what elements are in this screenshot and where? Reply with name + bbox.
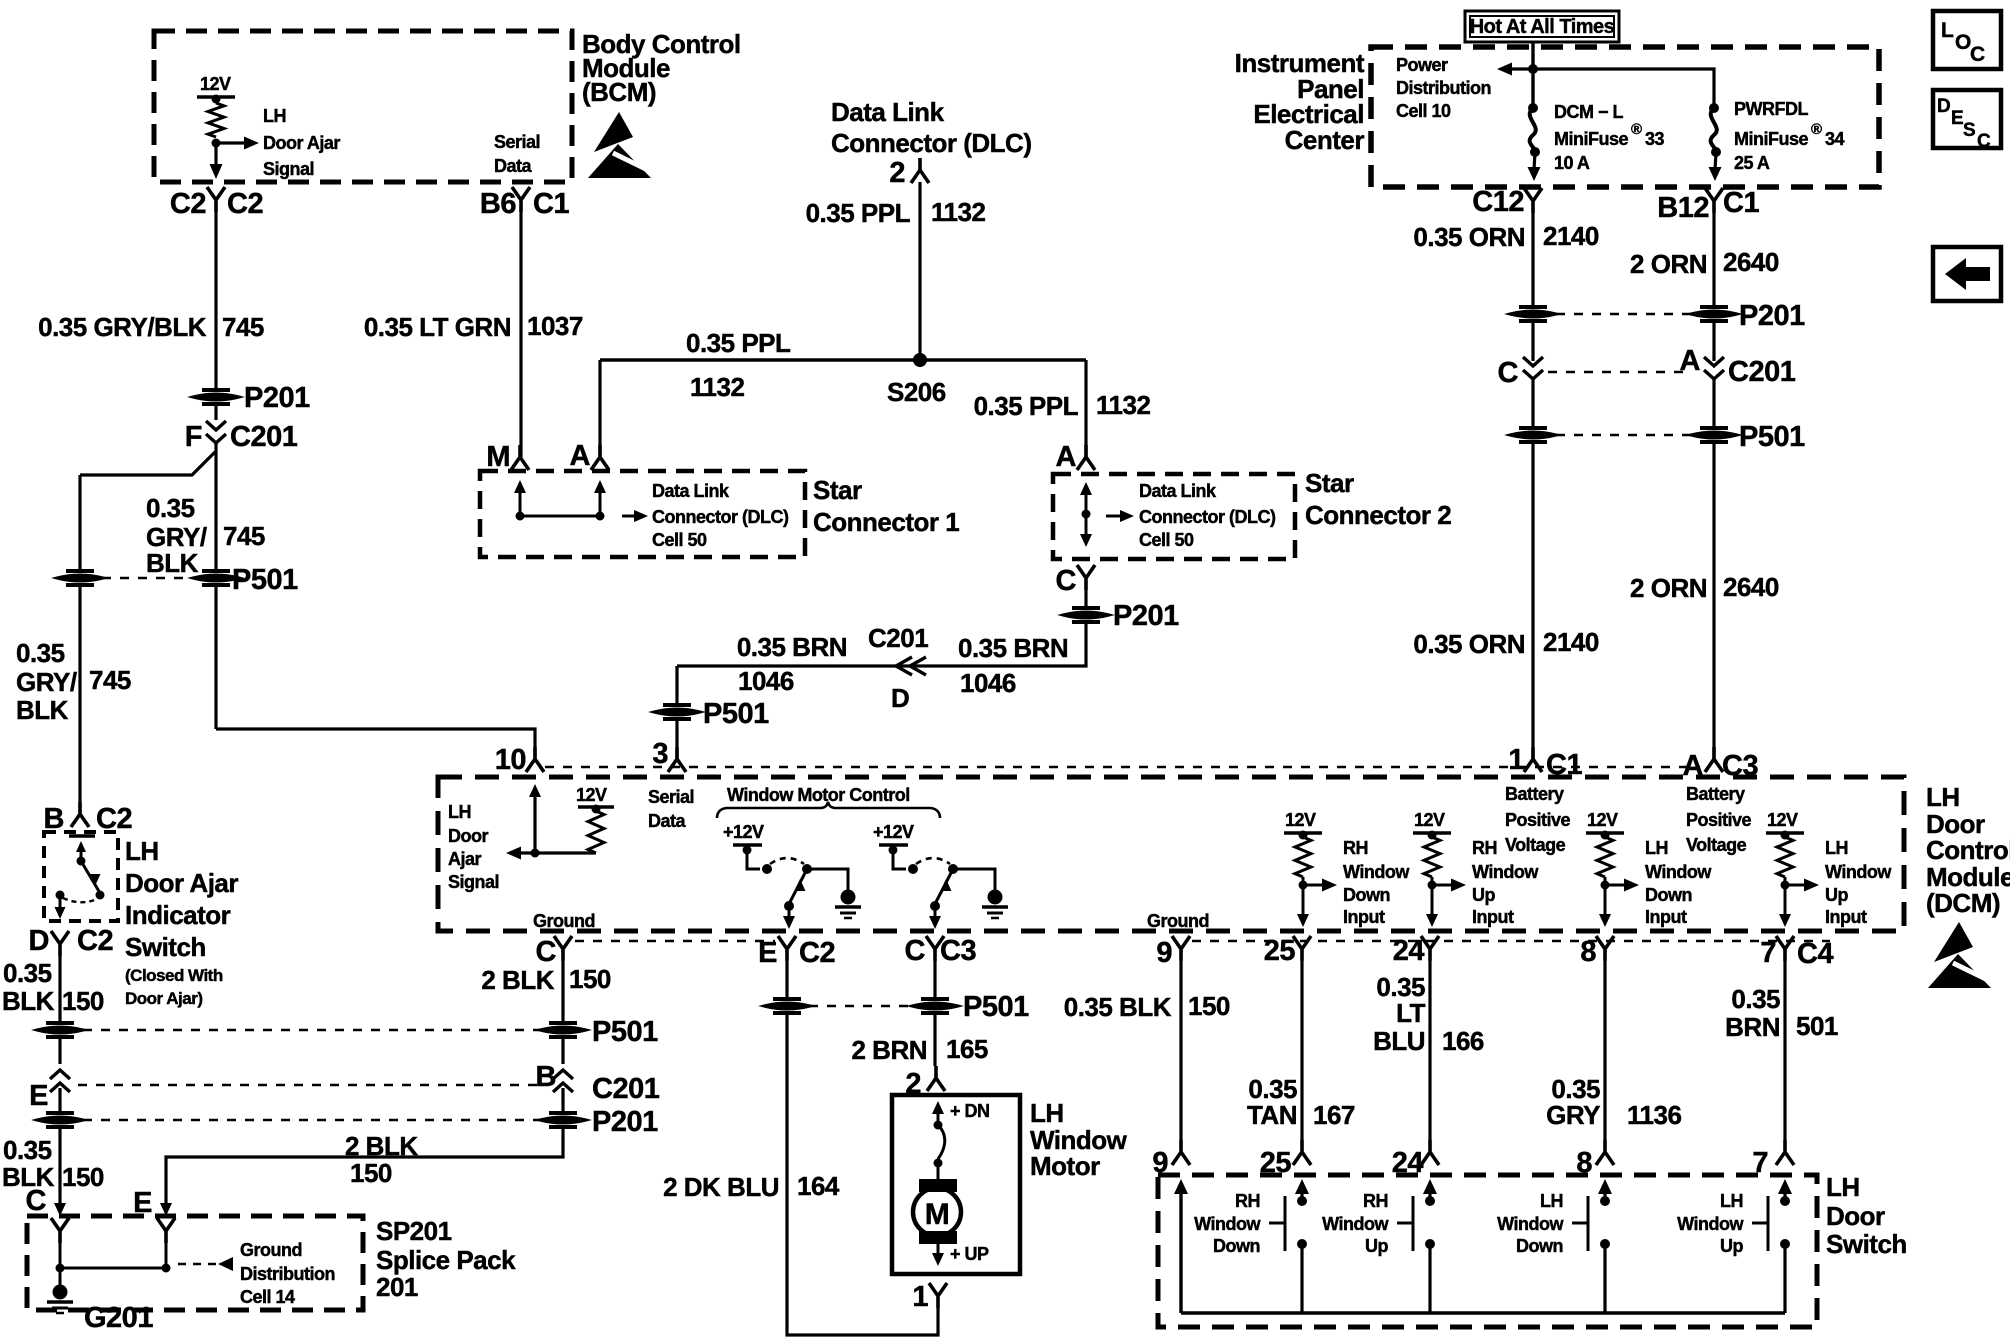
junction dot on feed <box>1528 64 1538 74</box>
svg-text:Down: Down <box>1645 885 1692 905</box>
svg-text:M: M <box>925 1198 950 1231</box>
svg-text:RH: RH <box>1343 838 1368 858</box>
svg-text:Signal: Signal <box>448 872 499 892</box>
Star Connector 2 box <box>1053 474 1295 559</box>
svg-text:0.35: 0.35 <box>3 1135 52 1165</box>
svg-text:Data Link: Data Link <box>652 481 730 501</box>
DESC reference box <box>1933 90 2001 148</box>
svg-text:10: 10 <box>495 744 526 776</box>
window motor switch 2 contact arc <box>916 858 950 864</box>
svg-text:Down: Down <box>1516 1236 1563 1256</box>
svg-text:C: C <box>1056 565 1077 597</box>
svg-text:Up: Up <box>1720 1236 1743 1256</box>
wire 0.35 BRN 501 from DCM pin 7 <box>1783 961 1786 1140</box>
wire 0.35 LT GRN 1037 serial data <box>519 212 522 457</box>
svg-text:3: 3 <box>652 738 668 770</box>
svg-text:150: 150 <box>1188 991 1230 1021</box>
fuse PWRFDL MiniFuse 34 25 A <box>1709 103 1719 113</box>
svg-text:2 ORN: 2 ORN <box>1630 249 1707 279</box>
svg-text:0.35 LT GRN: 0.35 LT GRN <box>364 312 511 342</box>
svg-text:Indicator: Indicator <box>125 900 231 930</box>
svg-text:12V: 12V <box>576 785 607 805</box>
svg-text:2: 2 <box>889 157 905 189</box>
svg-text:2140: 2140 <box>1543 627 1599 657</box>
DCM ESD symbol <box>1928 922 1994 988</box>
diagonal branch of wire 745 to left <box>80 452 215 475</box>
svg-text:Window: Window <box>1472 862 1539 882</box>
svg-text:Window: Window <box>1677 1214 1744 1234</box>
svg-text:Ground: Ground <box>533 911 595 931</box>
svg-text:0.35 ORN: 0.35 ORN <box>1413 222 1525 252</box>
Star Connector 1 box <box>480 471 805 557</box>
svg-text:C: C <box>1970 43 1985 66</box>
wire 2 BRN 165 from DCM pin C/C3 <box>933 961 936 998</box>
svg-text:Splice Pack: Splice Pack <box>376 1245 516 1275</box>
wires between C201 and P501 (right) <box>1531 379 1534 427</box>
horizontal PPL wire <box>600 358 1086 362</box>
connector P501 pair (motor) <box>764 999 810 1013</box>
svg-text:0.35: 0.35 <box>3 958 52 988</box>
wire 0.35 TAN 167 from DCM pin 25 <box>1300 961 1303 1140</box>
svg-text:Star: Star <box>813 475 862 505</box>
svg-text:2 BRN: 2 BRN <box>851 1035 927 1065</box>
svg-text:L: L <box>1941 19 1954 42</box>
svg-text:SP201: SP201 <box>376 1216 452 1246</box>
svg-text:A: A <box>570 440 591 472</box>
svg-text:C1: C1 <box>533 188 569 220</box>
svg-text:C1: C1 <box>1723 187 1759 219</box>
wire down to pin C2 inside BCM <box>214 143 217 164</box>
wire from DCM pin E/C2 to motor <box>785 961 788 998</box>
svg-text:B12: B12 <box>1657 192 1709 224</box>
svg-text:164: 164 <box>797 1171 840 1201</box>
svg-text:Window: Window <box>1645 862 1712 882</box>
svg-text:Window Motor Control: Window Motor Control <box>727 785 910 805</box>
svg-text:LH: LH <box>263 106 286 126</box>
splice pack pin E <box>157 1218 175 1243</box>
svg-text:Cell 50: Cell 50 <box>652 530 707 550</box>
internal wires of Star Connector 2 <box>1080 482 1092 495</box>
window motor switch 2 ground <box>953 869 995 890</box>
svg-text:33: 33 <box>1645 129 1665 149</box>
svg-text:P501: P501 <box>963 991 1029 1023</box>
svg-text:25 A: 25 A <box>1734 153 1770 173</box>
svg-text:LH: LH <box>448 802 471 822</box>
svg-text:MiniFuse: MiniFuse <box>1734 129 1808 149</box>
svg-text:Signal: Signal <box>263 159 314 179</box>
svg-text:2640: 2640 <box>1723 247 1779 277</box>
wire down to Star Connector 2 pin A <box>1084 360 1087 457</box>
svg-text:LH: LH <box>1825 838 1848 858</box>
svg-text:Input: Input <box>1472 907 1514 927</box>
svg-text:Connector (DLC): Connector (DLC) <box>652 507 789 527</box>
svg-text:Motor: Motor <box>1030 1151 1100 1181</box>
wire 2 ORN 2640 upper <box>1712 213 1715 306</box>
BCM ESD symbol <box>588 112 654 178</box>
svg-text:150: 150 <box>350 1158 392 1188</box>
Instrument Panel Electrical Center box <box>1371 47 1879 187</box>
svg-text:C: C <box>26 1185 47 1217</box>
svg-text:C201: C201 <box>592 1073 660 1105</box>
svg-text:2640: 2640 <box>1723 572 1779 602</box>
arrow to Power Distribution <box>1510 67 1533 70</box>
svg-text:Down: Down <box>1213 1236 1260 1256</box>
svg-text:P201: P201 <box>592 1106 658 1138</box>
svg-text:B6: B6 <box>480 188 516 220</box>
svg-text:1132: 1132 <box>1096 390 1150 420</box>
connector P201 on wire 745 <box>193 390 239 404</box>
wire 2 BLK 150 from DCM pin C <box>561 961 564 1022</box>
svg-text:Door Ajar): Door Ajar) <box>125 989 203 1008</box>
svg-text:745: 745 <box>89 665 131 695</box>
svg-text:150: 150 <box>62 1162 104 1192</box>
svg-text:2 BLK: 2 BLK <box>345 1131 418 1161</box>
SP201 Splice Pack 201 box <box>27 1216 363 1310</box>
svg-text:C: C <box>905 935 926 967</box>
svg-text:1046: 1046 <box>960 668 1016 698</box>
svg-text:C201: C201 <box>868 623 928 653</box>
svg-text:0.35 PPL: 0.35 PPL <box>806 198 911 228</box>
svg-text:1: 1 <box>912 1281 928 1313</box>
door ajar switch output <box>59 898 62 908</box>
svg-text:C3: C3 <box>940 935 976 967</box>
svg-text:Input: Input <box>1343 907 1385 927</box>
svg-text:BLK: BLK <box>2 986 55 1016</box>
svg-text:C2: C2 <box>227 188 263 220</box>
svg-text:O: O <box>1955 31 1971 54</box>
svg-text:Star: Star <box>1305 468 1354 498</box>
wire 2 ORN 2640 lower down to DCM pin A <box>1712 443 1715 759</box>
branch wire to fuse 34 <box>1533 69 1714 104</box>
svg-text:Window: Window <box>1322 1214 1389 1234</box>
LH Window Motor box <box>892 1095 1020 1274</box>
svg-text:LT: LT <box>1396 998 1425 1028</box>
svg-text:Connector 2: Connector 2 <box>1305 500 1451 530</box>
svg-text:®: ® <box>1811 121 1822 138</box>
svg-text:12V: 12V <box>1285 810 1316 830</box>
feed wire from Hot At All Times <box>1531 42 1534 104</box>
svg-text:2 ORN: 2 ORN <box>1630 573 1707 603</box>
svg-text:M: M <box>486 441 510 473</box>
svg-text:P201: P201 <box>1113 600 1179 632</box>
door switch common rail <box>1181 1311 1785 1315</box>
door ajar switch arm <box>81 861 100 893</box>
svg-text:9: 9 <box>1156 937 1172 969</box>
svg-text:P501: P501 <box>232 564 298 596</box>
Body Control Module (BCM) box <box>154 31 572 182</box>
motor internal + DN contact <box>932 1101 944 1114</box>
svg-text:P501: P501 <box>1739 421 1805 453</box>
svg-text:1132: 1132 <box>690 372 744 402</box>
svg-text:34: 34 <box>1825 129 1845 149</box>
svg-text:10 A: 10 A <box>1554 153 1590 173</box>
svg-text:Data Link: Data Link <box>1139 481 1217 501</box>
svg-text:D: D <box>1937 96 1950 117</box>
junction node in BCM <box>212 139 221 148</box>
connector P501 pair (bottom left) <box>37 1023 83 1037</box>
svg-text:1132: 1132 <box>931 197 985 227</box>
svg-text:PWRFDL: PWRFDL <box>1734 99 1808 119</box>
svg-text:BLK: BLK <box>16 695 69 725</box>
svg-text:12V: 12V <box>1767 810 1798 830</box>
svg-text:Door Ajar: Door Ajar <box>263 133 340 153</box>
back-arrow reference box <box>1933 247 2001 301</box>
svg-text:Down: Down <box>1343 885 1390 905</box>
svg-text:0.35 ORN: 0.35 ORN <box>1413 629 1525 659</box>
window motor switch 1 output to pin E <box>788 906 791 917</box>
svg-text:P201: P201 <box>244 382 310 414</box>
svg-text:LH: LH <box>1030 1098 1064 1128</box>
svg-text:C: C <box>1977 131 1991 152</box>
svg-text:2140: 2140 <box>1543 221 1599 251</box>
svg-text:LH: LH <box>1540 1191 1563 1211</box>
door ajar switch dashed arc <box>63 898 97 902</box>
svg-text:Door Ajar: Door Ajar <box>125 868 238 898</box>
svg-text:Battery: Battery <box>1505 784 1564 804</box>
svg-text:Input: Input <box>1645 907 1687 927</box>
svg-text:Door: Door <box>448 826 488 846</box>
connector C201 pins E and B (bottom) <box>58 1038 61 1064</box>
svg-text:Ground: Ground <box>240 1240 302 1260</box>
wire 0.35 LT BLU 166 from DCM pin 24 <box>1428 961 1431 1140</box>
svg-text:Switch: Switch <box>1826 1229 1907 1259</box>
svg-text:Data: Data <box>494 156 533 176</box>
motor internal switch curve <box>938 1125 945 1159</box>
svg-text:®: ® <box>1631 121 1642 138</box>
door switch RH Down <box>1295 1179 1309 1194</box>
connector P201 below SC2 <box>1084 590 1087 607</box>
svg-text:RH: RH <box>1235 1191 1260 1211</box>
svg-text:0.35 GRY/BLK: 0.35 GRY/BLK <box>38 312 207 342</box>
svg-text:F: F <box>185 421 202 453</box>
svg-text:0.35 BRN: 0.35 BRN <box>737 632 847 662</box>
dashed link to Ground Distribution <box>178 1263 216 1266</box>
LOC reference box <box>1933 11 2001 69</box>
svg-text:A: A <box>1683 750 1704 782</box>
wire 0.35 BRN 1046 from SC2 <box>677 621 1086 666</box>
svg-text:Control: Control <box>1926 835 2010 865</box>
wire 2 BLK 150 to splice pack pin E <box>166 1128 563 1203</box>
LH Door Switch box <box>1158 1175 1817 1327</box>
svg-text:(Closed With: (Closed With <box>125 966 223 985</box>
arrow to Cell 50 text (SC2) <box>1106 515 1120 518</box>
wire 0.35 GRY 1136 from DCM pin 8 <box>1603 961 1606 1140</box>
window motor switch 2 output to pin C <box>934 906 937 917</box>
window motor switch 1 ground <box>807 869 848 890</box>
svg-text:Cell 50: Cell 50 <box>1139 530 1194 550</box>
DCM bottom connector line C4 (right group) <box>1192 940 1830 943</box>
window motor switch 2 arm <box>936 873 951 902</box>
svg-text:LH: LH <box>125 836 159 866</box>
svg-text:BLK: BLK <box>146 548 199 578</box>
svg-text:0.35 BLK: 0.35 BLK <box>1064 992 1172 1022</box>
wire 0.35 ORN 2140 lower down to DCM pin 1 <box>1531 443 1534 759</box>
wire 0.35 BLK 150 to splice pack pin C <box>58 1128 61 1203</box>
svg-text:C201: C201 <box>1728 356 1796 388</box>
svg-text:Cell 14: Cell 14 <box>240 1287 295 1307</box>
door switch RH Up <box>1423 1179 1437 1194</box>
svg-text:Power: Power <box>1396 55 1448 75</box>
internal wires of Star Connector 1 <box>514 480 526 493</box>
wire 745 right branch down to DCM pin 10 <box>214 585 217 729</box>
svg-text:166: 166 <box>1442 1026 1484 1056</box>
svg-text:C1: C1 <box>1546 749 1582 781</box>
svg-text:+12V: +12V <box>873 822 914 842</box>
motor internal + UP lead <box>937 1244 940 1253</box>
svg-text:BRN: BRN <box>1725 1012 1780 1042</box>
svg-text:Window: Window <box>1497 1214 1564 1234</box>
svg-text:GRY: GRY <box>1546 1100 1600 1130</box>
svg-text:Up: Up <box>1472 885 1495 905</box>
svg-text:(DCM): (DCM) <box>1926 888 2000 918</box>
svg-text:C201: C201 <box>230 421 298 453</box>
fuse DCM-L MiniFuse 33 10 A <box>1528 103 1538 113</box>
svg-text:Door: Door <box>1826 1201 1885 1231</box>
svg-text:LH: LH <box>1720 1191 1743 1211</box>
svg-text:165: 165 <box>946 1034 988 1064</box>
connector P501 pair (right) <box>1510 428 1556 442</box>
svg-text:Window: Window <box>1343 862 1410 882</box>
svg-text:P501: P501 <box>703 698 769 730</box>
svg-text:E: E <box>758 937 777 969</box>
svg-text:Hot At All Times: Hot At All Times <box>1470 16 1615 38</box>
svg-text:Positive: Positive <box>1505 810 1571 830</box>
svg-text:150: 150 <box>569 964 611 994</box>
DCM bottom connector line (left group) <box>575 940 775 943</box>
arrow to LH Door Ajar Signal (BCM) <box>216 141 245 144</box>
svg-text:Data Link: Data Link <box>831 97 945 127</box>
door switch LH Down <box>1598 1179 1612 1194</box>
Hot At All Times box <box>1465 11 1619 42</box>
svg-text:G201: G201 <box>84 1302 153 1334</box>
connector P201 pair (bottom left) <box>58 1088 61 1112</box>
svg-text:E: E <box>29 1080 48 1112</box>
svg-text:Voltage: Voltage <box>1686 835 1747 855</box>
resistor in BCM (door ajar pull-up) <box>215 99 218 103</box>
svg-text:+12V: +12V <box>723 822 764 842</box>
svg-text:GRY/: GRY/ <box>16 667 77 697</box>
motor M symbol <box>919 1179 957 1192</box>
svg-text:Window: Window <box>1825 862 1892 882</box>
svg-text:BLU: BLU <box>1373 1026 1425 1056</box>
svg-text:Serial: Serial <box>494 132 540 152</box>
svg-text:Ajar: Ajar <box>448 849 482 869</box>
svg-text:C4: C4 <box>1797 938 1833 970</box>
svg-text:0.35 PPL: 0.35 PPL <box>686 328 791 358</box>
svg-text:Connector 1: Connector 1 <box>813 507 959 537</box>
svg-text:TAN: TAN <box>1247 1100 1297 1130</box>
svg-text:Positive: Positive <box>1686 810 1752 830</box>
svg-text:0.35: 0.35 <box>146 493 195 523</box>
svg-text:C2: C2 <box>77 925 113 957</box>
svg-text:12V: 12V <box>1587 810 1618 830</box>
svg-text:0.35: 0.35 <box>16 638 65 668</box>
svg-text:Connector (DLC): Connector (DLC) <box>831 128 1031 158</box>
svg-text:S206: S206 <box>887 377 946 407</box>
svg-text:501: 501 <box>1796 1011 1838 1041</box>
connector P501 on BRN wire <box>675 666 678 704</box>
svg-text:Data: Data <box>648 811 687 831</box>
svg-text:LH: LH <box>1926 782 1960 812</box>
wire from door ajar switch pin D <box>58 956 61 1022</box>
wire 0.35 ORN 2140 upper <box>1531 213 1534 306</box>
svg-text:2 DK BLU: 2 DK BLU <box>663 1172 779 1202</box>
svg-text:RH: RH <box>1472 838 1497 858</box>
svg-text:Voltage: Voltage <box>1505 835 1566 855</box>
wire down to Star Connector 1 pin A <box>598 360 601 457</box>
svg-text:1: 1 <box>1508 744 1524 776</box>
door ajar switch contact <box>69 834 95 838</box>
svg-text:12V: 12V <box>1414 810 1445 830</box>
svg-text:Cell 10: Cell 10 <box>1396 101 1451 121</box>
svg-text:+ UP: + UP <box>950 1244 989 1264</box>
wire 0.35 PPL 1132 from DLC <box>918 182 921 360</box>
window motor switch 1 arm <box>790 873 805 902</box>
svg-text:745: 745 <box>223 521 265 551</box>
svg-text:Up: Up <box>1825 885 1848 905</box>
connector P201 pair (right) <box>1510 307 1556 321</box>
svg-text:745: 745 <box>222 312 264 342</box>
svg-text:167: 167 <box>1313 1100 1355 1130</box>
wire to DCM pin 3 <box>675 720 678 759</box>
svg-text:MiniFuse: MiniFuse <box>1554 129 1628 149</box>
svg-text:P201: P201 <box>1739 300 1805 332</box>
svg-text:LH: LH <box>1826 1172 1860 1202</box>
arrow to Cell 50 text (SC1) <box>622 515 636 518</box>
svg-text:Distribution: Distribution <box>1396 78 1491 98</box>
svg-text:Window: Window <box>1194 1214 1261 1234</box>
svg-text:C12: C12 <box>1472 186 1524 218</box>
left wire 745 down to door ajar switch <box>78 475 81 571</box>
ground G201 <box>53 1285 68 1300</box>
svg-text:2 BLK: 2 BLK <box>481 965 554 995</box>
svg-text:C2: C2 <box>170 188 206 220</box>
LH Door Ajar Indicator Switch box <box>44 832 118 921</box>
svg-text:A: A <box>1680 345 1701 377</box>
LH Door Control Module (DCM) box <box>438 777 1904 931</box>
svg-text:1037: 1037 <box>527 311 583 341</box>
svg-text:25: 25 <box>1264 935 1296 967</box>
svg-text:1136: 1136 <box>1627 1100 1681 1130</box>
svg-text:0.35 PPL: 0.35 PPL <box>974 391 1079 421</box>
svg-text:LH: LH <box>1645 838 1668 858</box>
connector C201 pin F on wire 745 <box>214 403 217 420</box>
svg-text:RH: RH <box>1363 1191 1388 1211</box>
svg-text:C: C <box>536 936 557 968</box>
svg-text:E: E <box>1951 108 1963 129</box>
svg-text:D: D <box>891 683 909 713</box>
svg-text:C: C <box>1498 357 1519 389</box>
svg-text:D: D <box>29 925 49 957</box>
wires between P201 and C201 (right) <box>1531 322 1534 361</box>
svg-text:Connector (DLC): Connector (DLC) <box>1139 507 1276 527</box>
svg-text:201: 201 <box>376 1272 418 1302</box>
svg-text:Input: Input <box>1825 907 1867 927</box>
splice pack pin C <box>51 1218 69 1243</box>
door switch LH Up <box>1778 1179 1792 1194</box>
svg-text:24: 24 <box>1393 935 1425 967</box>
svg-text:C3: C3 <box>1722 750 1758 782</box>
wire 745 below C201 splitting <box>214 443 217 571</box>
svg-text:0.35 BRN: 0.35 BRN <box>958 633 1068 663</box>
svg-text:DCM − L: DCM − L <box>1554 102 1624 122</box>
window motor switch 1 contact arc <box>770 858 804 864</box>
wire 0.35 GRY/BLK 745 from BCM C2 <box>214 212 217 390</box>
svg-text:Center: Center <box>1285 125 1365 155</box>
svg-text:(BCM): (BCM) <box>582 77 656 107</box>
splice S206 <box>913 353 927 367</box>
door switch ground wire from pin 9 <box>1174 1179 1188 1194</box>
